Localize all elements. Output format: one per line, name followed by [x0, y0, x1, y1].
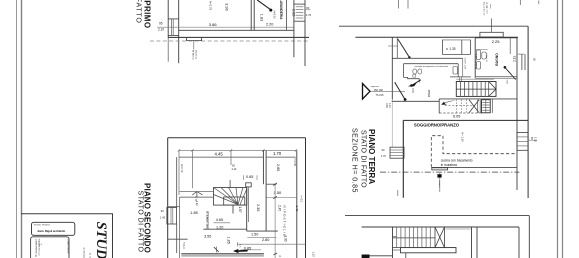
balcony — [187, 38, 202, 41]
svg-text:H=2.05: H=2.05 — [293, 158, 296, 166]
svg-text:2.85: 2.85 — [276, 164, 280, 171]
svg-text:4.45: 4.45 — [215, 151, 224, 156]
svg-text:H=1.0: H=1.0 — [182, 242, 185, 249]
walls around stair — [246, 188, 248, 232]
dash-dot line — [380, 171, 519, 173]
svg-text:H=2.70: H=2.70 — [180, 164, 184, 173]
top short dim ticks (cut off above) — [398, 0, 400, 9]
gray terrace bands — [181, 253, 264, 256]
right walls — [286, 0, 288, 30]
corridor lines + stair arrow — [180, 191, 213, 193]
right wall mid — [516, 38, 518, 190]
svg-text:1.83: 1.83 — [260, 14, 264, 21]
svg-text:4.10: 4.10 — [388, 103, 391, 108]
entrance door — [395, 82, 405, 99]
svg-text:ingresso: ingresso — [371, 85, 380, 88]
landing bar — [401, 248, 457, 253]
svg-text:0.90: 0.90 — [385, 103, 388, 108]
soggiorno — [403, 119, 528, 121]
bagno — [474, 38, 476, 77]
svg-text:BAGNO: BAGNO — [495, 53, 499, 66]
bottom wall end ticks — [397, 190, 399, 196]
svg-text:1.20: 1.20 — [216, 226, 223, 230]
svg-text:2.10: 2.10 — [158, 28, 164, 32]
svg-text:2.00 H 1.90: 2.00 H 1.90 — [463, 58, 465, 70]
svg-text:STENDITOIO: STENDITOIO — [206, 211, 210, 230]
svg-text:0.75: 0.75 — [411, 88, 414, 93]
left wall verticals — [167, 0, 169, 38]
svg-text:STATO DI FATTO: STATO DI FATTO — [360, 130, 367, 188]
svg-text:VIA ABRUZZI n.14: VIA ABRUZZI n.14 — [37, 239, 40, 256]
svg-text:1.85: 1.85 — [190, 211, 197, 215]
shaft box — [482, 100, 491, 113]
svg-text:1.87: 1.87 — [238, 206, 242, 212]
svg-text:2.20: 2.20 — [266, 22, 273, 26]
winder stair — [214, 188, 247, 206]
svg-text:1.70: 1.70 — [381, 154, 387, 158]
svg-text:1.35: 1.35 — [534, 137, 538, 143]
black arrow — [233, 249, 248, 253]
svg-text:60: 60 — [306, 6, 310, 10]
svg-text:1.30: 1.30 — [283, 235, 287, 241]
svg-text:1.20: 1.20 — [312, 252, 316, 258]
svg-text:2.25: 2.25 — [492, 39, 501, 44]
svg-text:INGR.: INGR. — [427, 89, 431, 98]
svg-text:1.45: 1.45 — [160, 216, 166, 220]
svg-text:150 190: 150 190 — [374, 88, 384, 92]
X void — [469, 100, 479, 113]
TITLE BLOCK — [21, 214, 113, 258]
outline — [345, 215, 529, 217]
svg-text:1.70: 1.70 — [273, 151, 282, 156]
window right wall — [517, 132, 528, 150]
boxes left of bagno — [441, 40, 443, 55]
door swing — [257, 0, 270, 10]
svg-text:75 215: 75 215 — [376, 93, 384, 97]
svg-text:4.65: 4.65 — [216, 218, 223, 222]
window left wall — [168, 18, 179, 20]
bathroom under stair — [392, 57, 462, 59]
architect card — [32, 222, 75, 235]
svg-text:2.45: 2.45 — [295, 206, 299, 212]
under-stair dashed flight — [439, 98, 517, 100]
svg-text:1.62: 1.62 — [195, 201, 198, 206]
dim line right — [274, 253, 278, 255]
svg-text:m: m — [279, 255, 281, 258]
svg-text:2.45: 2.45 — [278, 205, 282, 211]
stair hatch in section — [392, 227, 394, 258]
svg-text:SOGGIORNO/PRANZO: SOGGIORNO/PRANZO — [414, 122, 460, 127]
svg-text:3.55: 3.55 — [204, 234, 211, 238]
svg-text:LAVANDERIA: LAVANDERIA — [279, 0, 283, 20]
svg-text:PIANO PRIMO: PIANO PRIMO — [143, 0, 152, 28]
svg-text:balc.ne h=1.10: balc.ne h=1.10 — [482, 2, 484, 16]
svg-text:scarico: scarico — [438, 181, 441, 189]
verticals — [178, 150, 180, 195]
svg-text:sp.ogg.=1.10: sp.ogg.=1.10 — [486, 2, 488, 15]
svg-text:5.70: 5.70 — [194, 196, 198, 202]
top wall — [339, 25, 528, 27]
svg-text:COMMITTENTE: COMMITTENTE — [67, 239, 69, 254]
svg-text:SEZIONE H= 0.85: SEZIONE H= 0.85 — [351, 128, 358, 193]
lower card — [31, 237, 69, 258]
dim line — [179, 149, 296, 151]
left wall inner + window — [176, 157, 178, 207]
svg-text:in muratura: in muratura — [441, 163, 457, 167]
svg-text:STUDIO: STUDIO — [93, 222, 109, 258]
svg-text:STATO DI FATTO: STATO DI FATTO — [137, 191, 144, 253]
svg-text:2.35: 2.35 — [256, 204, 260, 211]
svg-text:⊙ 1.35: ⊙ 1.35 — [446, 47, 456, 51]
svg-text:1.70: 1.70 — [306, 13, 312, 17]
svg-text:0.65: 0.65 — [246, 175, 253, 179]
svg-text:COMMITTENTE sig.: COMMITTENTE sig. — [34, 239, 36, 258]
svg-text:H=2.10: H=2.10 — [273, 11, 276, 20]
svg-text:2.85: 2.85 — [291, 9, 295, 16]
right inner box — [471, 227, 473, 258]
window left wall of soggiorno — [390, 147, 404, 158]
svg-text:ATTACCO: ATTACCO — [191, 50, 194, 60]
svg-text:STUDIO TECNICO: STUDIO TECNICO — [34, 224, 51, 226]
svg-text:2.19: 2.19 — [512, 55, 516, 61]
svg-text:6.05: 6.05 — [453, 115, 460, 119]
svg-text:95: 95 — [159, 21, 163, 25]
svg-text:H=2.75: H=2.75 — [209, 1, 213, 11]
svg-text:H= 1.29: H= 1.29 — [461, 132, 465, 142]
svg-text:dario Rigoli architetto: dario Rigoli architetto — [38, 229, 66, 233]
svg-text:RIPOSTIGLIO: RIPOSTIGLIO — [282, 206, 286, 238]
entrance triangle + texts — [363, 84, 371, 100]
svg-text:via Novara: via Novara — [83, 248, 86, 258]
svg-text:3.90: 3.90 — [225, 3, 230, 12]
window right wall ladder — [294, 3, 305, 5]
svg-text:55x28 cm: 55x28 cm — [195, 50, 197, 59]
svg-text:STATO DI FATTO: STATO DI FATTO — [134, 0, 141, 24]
svg-text:2.10: 2.10 — [232, 168, 237, 171]
dashed section line — [150, 40, 309, 42]
svg-text:2.80: 2.80 — [262, 238, 269, 242]
svg-text:1.50: 1.50 — [251, 233, 258, 237]
svg-text:PIANO TERRA: PIANO TERRA — [367, 129, 376, 184]
inner top edge — [179, 156, 263, 158]
svg-text:1.50: 1.50 — [274, 190, 283, 195]
black mark bottom — [362, 255, 370, 258]
notch above bagno — [480, 32, 503, 37]
svg-text:tel. 02: tel. 02 — [89, 253, 92, 258]
bottom wall lines — [179, 29, 294, 31]
svg-text:H=2.0: H=2.0 — [299, 196, 302, 203]
svg-text:1.29x1.10: 1.29x1.10 — [485, 53, 487, 63]
outer boundary — [168, 137, 306, 139]
stair — [456, 78, 494, 80]
svg-text:3.86: 3.86 — [209, 22, 218, 27]
lavanderia walls — [250, 0, 252, 30]
svg-text:armadio incorporato nel sottos: armadio incorporato nel sottoscala — [415, 65, 449, 68]
svg-text:1.85: 1.85 — [227, 237, 231, 244]
left wall — [391, 37, 393, 99]
door swing top-left — [398, 39, 410, 57]
dim line across — [157, 26, 294, 28]
curved black arrow — [441, 101, 456, 105]
cucina dashed — [431, 136, 517, 168]
